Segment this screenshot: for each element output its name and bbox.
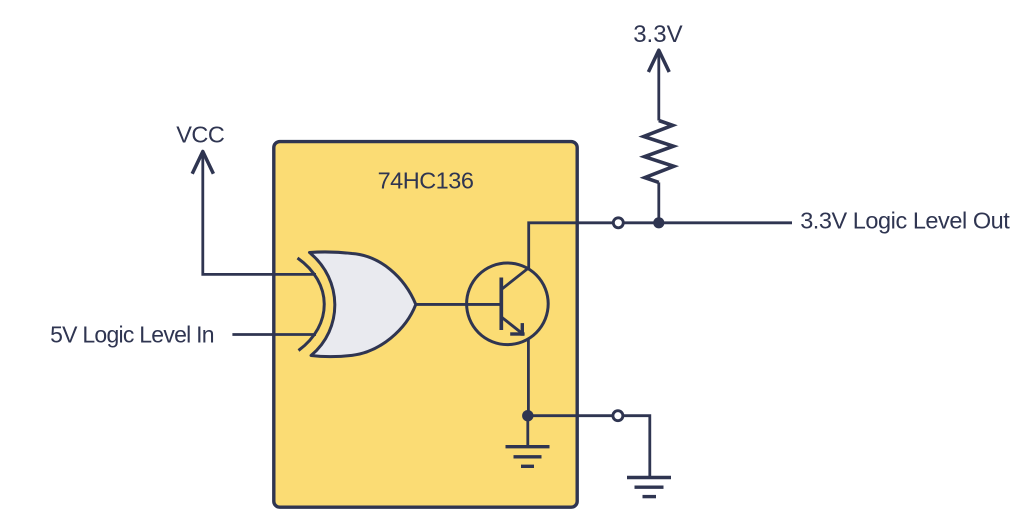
3.3V arrow head	[648, 50, 669, 72]
IC box 74HC136	[274, 142, 577, 508]
svg-text:3.3V Logic Level Out: 3.3V Logic Level Out	[800, 208, 1010, 234]
wire collector up and right to output node	[501, 223, 792, 290]
junction dot output node	[653, 217, 664, 228]
ground left bars	[506, 445, 550, 448]
svg-text:5V Logic Level In: 5V Logic Level In	[50, 321, 214, 347]
resistor R1 zigzag	[644, 121, 674, 183]
transistor Q1 base bar	[499, 278, 503, 331]
xor gate U1 body	[310, 252, 416, 357]
svg-text:3.3V: 3.3V	[633, 21, 682, 48]
transistor Q1 circle	[467, 263, 549, 345]
open terminal circle output	[613, 218, 623, 228]
wire gate output to transistor base	[414, 303, 501, 306]
svg-text:VCC: VCC	[176, 122, 225, 148]
svg-text:74HC136: 74HC136	[378, 168, 474, 194]
transistor Q1 emitter diagonal	[502, 318, 523, 335]
wire bottom node right and down to ground	[528, 416, 650, 478]
ground right bars	[627, 476, 671, 479]
VCC arrow head	[192, 152, 213, 174]
ground left stem	[526, 416, 529, 447]
wire 5V input to gate input B	[232, 333, 316, 336]
wire VCC vertical+horizontal into gate input A	[203, 152, 316, 274]
resistor R1 upper lead	[657, 51, 660, 121]
open terminal circle bottom	[613, 411, 623, 421]
transistor Q1 emitter arrow bars	[510, 332, 524, 335]
resistor R1 lower lead	[657, 182, 660, 222]
xor gate U1 outer input arc	[298, 258, 325, 351]
wire emitter down to bottom node	[527, 339, 530, 416]
junction dot emitter node	[522, 410, 533, 421]
